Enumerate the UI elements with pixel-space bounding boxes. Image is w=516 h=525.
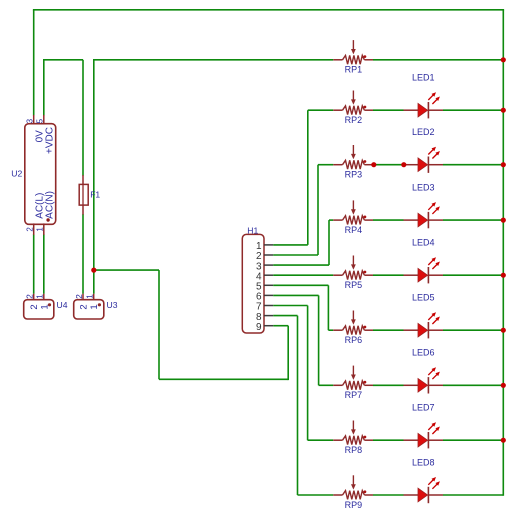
junction: 0V bus row 5 — [501, 273, 506, 278]
svg-text:RP8: RP8 — [345, 445, 363, 455]
LED LED4 — [404, 257, 444, 283]
svg-text:1: 1 — [35, 294, 45, 299]
wire: H1 pin 2 to RP3 — [273, 165, 333, 255]
wire: RP4 to LED3 anode — [373, 219, 404, 221]
label LED3 — [412, 183, 435, 193]
wire: RP7 to LED6 anode — [373, 384, 404, 386]
wire: LED5 cathode to 0V bus — [443, 329, 503, 331]
wire: RP2 to LED1 anode — [373, 109, 404, 111]
svg-text:2: 2 — [74, 294, 84, 299]
svg-text:RP5: RP5 — [345, 280, 363, 290]
junction: RP3 output node — [371, 162, 376, 167]
svg-text:RP9: RP9 — [345, 500, 363, 510]
svg-text:H1: H1 — [247, 225, 258, 235]
junction: 0V bus row 8 — [501, 438, 506, 443]
wire: LED7 cathode to 0V bus — [443, 439, 503, 441]
resistor RP5 — [333, 256, 373, 291]
junction: 0V bus row 7 — [501, 383, 506, 388]
label U4 — [57, 300, 68, 310]
svg-text:1: 1 — [36, 227, 45, 232]
junction: 0V bus row 6 — [501, 328, 506, 333]
resistor RP8 — [333, 421, 373, 456]
wire: H1 pin 6 to RP7 — [273, 295, 333, 385]
label LED4 — [412, 238, 435, 248]
svg-text:U4: U4 — [57, 300, 68, 310]
wire: fuse F1 output to U3 pin 2 — [82, 214, 84, 294]
wire: U2 pin 1 to U4 pin 1 — [43, 234, 45, 293]
resistor RP7 — [333, 366, 373, 401]
svg-text:LED6: LED6 — [412, 348, 435, 358]
wire: top 0V bus from U2 pin 3 — [33, 10, 504, 116]
wire: RP9 to LED8 anode — [373, 494, 404, 496]
svg-text:LED7: LED7 — [412, 403, 435, 413]
label LED5 — [412, 293, 435, 303]
wire: RP6 to LED5 anode — [373, 329, 404, 331]
svg-text:LED2: LED2 — [412, 127, 435, 137]
svg-text:3: 3 — [25, 118, 34, 123]
wire: LED4 cathode to 0V bus — [443, 274, 503, 276]
svg-text:U3: U3 — [107, 300, 118, 310]
svg-text:RP3: RP3 — [345, 170, 363, 180]
wire: RP3 to LED2 anode — [373, 164, 404, 166]
wire: LED8 cathode to 0V bus — [443, 494, 503, 496]
svg-text:RP7: RP7 — [345, 390, 363, 400]
wire: H1 pin 5 to RP6 — [273, 285, 333, 330]
resistor RP3 — [333, 145, 373, 180]
svg-text:2: 2 — [25, 294, 35, 299]
label LED6 — [412, 348, 435, 358]
wire: LED6 cathode to 0V bus — [443, 384, 503, 386]
wire: branch junction to H1 pin 9 — [94, 270, 288, 380]
label LED1 — [412, 73, 435, 83]
wire: RP1 feed horizontal — [94, 59, 333, 61]
label U2 — [11, 169, 22, 179]
LED LED3 — [404, 202, 444, 228]
junction: 0V bus row 1 — [501, 57, 506, 62]
svg-text:RP4: RP4 — [345, 225, 363, 235]
wire: RP5 to LED4 anode — [373, 274, 404, 276]
svg-text:LED8: LED8 — [412, 457, 435, 467]
svg-text:LED1: LED1 — [412, 73, 435, 83]
connector H1 — [242, 234, 273, 333]
LED LED2 — [404, 147, 444, 173]
junction: U3 pin1 branch — [91, 268, 96, 273]
svg-text:2: 2 — [25, 227, 34, 232]
resistor RP1 — [333, 40, 373, 75]
junction: 0V bus row 2 — [501, 108, 506, 113]
label LED2 — [412, 127, 435, 137]
svg-text:RP6: RP6 — [345, 335, 363, 345]
junction: LED2 anode node — [401, 162, 406, 167]
LED LED6 — [404, 367, 444, 393]
svg-text:AC(N): AC(N) — [45, 191, 56, 219]
wire: H1 pin 7 to RP8 — [273, 306, 333, 441]
svg-text:5: 5 — [36, 118, 45, 123]
wire: U2 pin 5 +VDC to fuse F1 — [43, 60, 83, 176]
label U3 — [107, 300, 118, 310]
label LED7 — [412, 403, 435, 413]
junction: 0V bus row 4 — [501, 218, 506, 223]
wire: LED2 cathode to 0V bus — [443, 164, 503, 166]
svg-text:F1: F1 — [90, 190, 100, 200]
label F1 — [90, 190, 100, 200]
wire: LED3 cathode to 0V bus — [443, 219, 503, 221]
wire: right vertical 0V bus — [502, 10, 504, 496]
resistor RP6 — [333, 311, 373, 346]
wire: H1 pin 3 to RP4 — [273, 220, 333, 265]
wire: H1 pin 4 to RP5 — [273, 274, 333, 276]
wire: RP1 output to 0V bus — [373, 59, 503, 61]
LED LED8 — [404, 477, 444, 503]
wire: U2 pin 2 to U4 pin 2 — [33, 234, 35, 293]
svg-text:RP1: RP1 — [345, 65, 363, 75]
svg-text:LED4: LED4 — [412, 238, 435, 248]
LED LED5 — [404, 312, 444, 338]
LED LED1 — [404, 92, 444, 118]
svg-text:9: 9 — [256, 322, 262, 333]
wire: H1 pin 1 to RP2 — [273, 110, 333, 245]
svg-text:LED3: LED3 — [412, 183, 435, 193]
label LED8 — [412, 457, 435, 467]
svg-text:1: 1 — [85, 294, 95, 299]
fuse F1 — [79, 175, 88, 215]
svg-text:RP2: RP2 — [345, 115, 363, 125]
svg-text:U2: U2 — [11, 169, 22, 179]
svg-text:LED5: LED5 — [412, 293, 435, 303]
resistor RP4 — [333, 200, 373, 235]
wire: LED1 cathode to 0V bus — [443, 109, 503, 111]
wire: H1 pin 8 to RP9 — [273, 316, 333, 495]
resistor RP9 — [333, 475, 373, 510]
wire: U3 pin 1 vertical up to RP1 feed row — [93, 59, 95, 294]
svg-text:+VDC: +VDC — [45, 127, 56, 154]
LED LED7 — [404, 422, 444, 448]
label H1 — [247, 225, 258, 235]
wire: RP8 to LED7 anode — [373, 439, 404, 441]
resistor RP2 — [333, 91, 373, 126]
junction: 0V bus row 3 — [501, 162, 506, 167]
power module U2 — [25, 115, 56, 235]
connector U4 — [24, 294, 54, 319]
connector U3 — [74, 294, 104, 319]
svg-text:2: 2 — [79, 304, 90, 309]
